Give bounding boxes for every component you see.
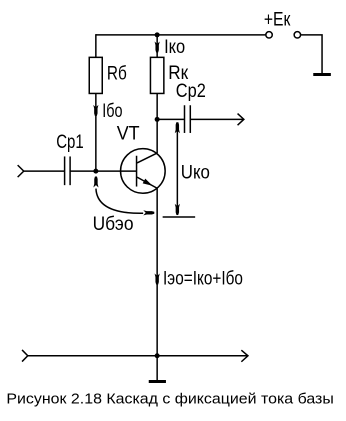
capacitor Cp2 xyxy=(185,105,191,133)
transistor VT base bar xyxy=(136,156,138,187)
input open arrow xyxy=(18,165,24,177)
bottom left open arrow xyxy=(22,350,28,362)
arrow Ubeo right tip xyxy=(143,210,154,215)
resistor Rk xyxy=(150,57,163,93)
wire Cp2 output xyxy=(191,118,244,120)
wire top rail xyxy=(96,34,266,36)
wire bottom rail xyxy=(28,355,248,357)
emitter reference bar xyxy=(163,216,196,218)
arrow Uko bottom xyxy=(175,204,180,215)
ground stub bottom xyxy=(156,356,158,381)
svg-text:Iэо=Iко+Iбо: Iэо=Iко+Iбо xyxy=(163,267,243,289)
transistor VT emitter arrow xyxy=(143,179,153,186)
arrow Ibo xyxy=(93,105,98,116)
wire from right terminal xyxy=(301,35,323,73)
arrow Ubeo up tip xyxy=(93,177,98,188)
node top junction xyxy=(155,32,160,37)
wire Rb bottom to base node xyxy=(95,93,97,171)
svg-text:VT: VT xyxy=(117,122,140,144)
node Cp2 junction xyxy=(155,117,160,122)
Uko measurement arrow line xyxy=(176,124,178,216)
svg-text:+Ек: +Ек xyxy=(264,9,291,31)
terminal circle right xyxy=(294,32,300,38)
output open arrow xyxy=(238,114,244,126)
svg-text:Uбэо: Uбэо xyxy=(93,213,134,235)
wire emitter down xyxy=(156,188,158,355)
svg-text:Рисунок 2.18 Каскад с фиксацие: Рисунок 2.18 Каскад с фиксацией тока баз… xyxy=(6,392,333,408)
resistor Rb xyxy=(89,57,102,93)
svg-text:Iбо: Iбо xyxy=(102,100,122,122)
svg-text:Uко: Uко xyxy=(181,162,210,184)
ground bar bottom xyxy=(149,380,166,383)
svg-text:Cp1: Cp1 xyxy=(56,131,84,153)
arrow Uko top xyxy=(175,122,180,133)
arrow Ieo xyxy=(155,274,160,285)
Ubeo curved arrow xyxy=(96,189,143,214)
ground bar top-right xyxy=(313,73,331,76)
bottom right open arrow xyxy=(241,350,248,362)
capacitor Cp1 xyxy=(65,156,71,185)
wire base xyxy=(70,170,136,172)
svg-text:Iко: Iко xyxy=(164,36,185,58)
wire Rk bottom to collector xyxy=(156,93,158,153)
wire input line xyxy=(24,170,64,172)
wire Rb top drop xyxy=(95,34,97,57)
transistor VT emitter lead xyxy=(137,177,157,188)
arrow Iko xyxy=(155,42,160,53)
terminal circle left xyxy=(266,32,272,38)
wire Rk top drop xyxy=(156,35,158,58)
svg-text:Cp2: Cp2 xyxy=(176,80,206,102)
wire Cp2 tap xyxy=(157,118,184,120)
node bottom junction xyxy=(155,353,160,358)
transistor VT collector lead xyxy=(137,153,157,163)
node base junction xyxy=(93,169,98,174)
svg-text:Rб: Rб xyxy=(107,63,127,85)
transistor VT circle xyxy=(121,149,166,194)
